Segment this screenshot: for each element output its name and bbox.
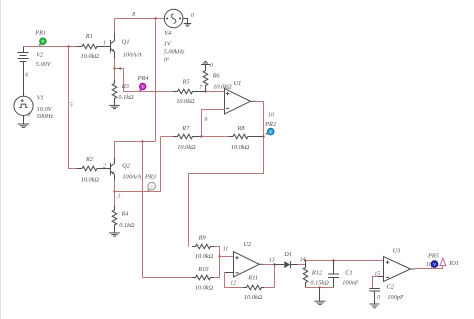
svg-text:5.00kHz: 5.00kHz <box>164 48 185 55</box>
probe PR4 <box>137 75 149 91</box>
svg-text:0: 0 <box>191 13 194 19</box>
capacitor C1 <box>328 261 359 288</box>
transistor Q1 <box>111 38 142 58</box>
battery V2 <box>18 47 52 97</box>
svg-text:R9: R9 <box>198 235 207 242</box>
svg-text:0.1kΩ: 0.1kΩ <box>119 222 135 229</box>
svg-text:V4: V4 <box>164 30 171 37</box>
svg-text:7: 7 <box>199 85 203 91</box>
resistor R4 <box>112 192 135 233</box>
svg-text:10.0kΩ: 10.0kΩ <box>213 84 232 91</box>
svg-text:2: 2 <box>103 163 106 169</box>
svg-text:0: 0 <box>377 295 380 301</box>
wire Q1 collector <box>114 33 116 41</box>
junction Q2 emitter <box>113 190 115 192</box>
svg-text:R2: R2 <box>85 156 94 163</box>
svg-text:R12: R12 <box>311 270 323 277</box>
junction C1 top <box>332 259 334 261</box>
op-amp U1 <box>225 80 251 114</box>
ground V1 <box>18 116 30 128</box>
wire rail node8 <box>115 18 165 20</box>
resistor R2 <box>77 156 111 184</box>
probe PR1 <box>34 30 46 46</box>
svg-text:10.0kΩ: 10.0kΩ <box>231 144 250 151</box>
svg-text:R10: R10 <box>197 266 209 273</box>
wire to U1 plus <box>206 91 225 93</box>
wire net5 vertical <box>69 47 77 169</box>
svg-text:10.0kΩ: 10.0kΩ <box>81 53 100 60</box>
arrow mark node4 <box>118 67 121 70</box>
wire emitter to R5 row <box>115 69 174 92</box>
ground R12 <box>314 288 325 305</box>
wire Q2 emitter <box>114 174 116 180</box>
svg-text:100pF: 100pF <box>387 294 404 301</box>
ground V4 <box>183 19 191 27</box>
wire D1 to node14 <box>298 261 306 265</box>
junction R12 ground <box>318 286 320 288</box>
svg-text:U2: U2 <box>244 241 253 248</box>
wire U1 output <box>251 100 256 102</box>
svg-text:500Hz: 500Hz <box>37 113 54 120</box>
svg-text:5: 5 <box>70 103 73 109</box>
svg-text:R4: R4 <box>120 210 128 217</box>
svg-text:100A/A: 100A/A <box>122 173 141 180</box>
svg-text:13: 13 <box>269 257 275 263</box>
svg-text:PR4: PR4 <box>137 75 149 82</box>
wire U2 inverting input <box>225 272 234 274</box>
source V4 <box>164 9 185 63</box>
svg-text:V1: V1 <box>37 94 44 101</box>
junction node8 drop <box>141 140 143 142</box>
svg-text:3: 3 <box>117 193 121 199</box>
svg-text:IO1: IO1 <box>448 260 459 267</box>
junction net5 <box>67 45 69 47</box>
svg-text:6: 6 <box>25 73 28 79</box>
diode D1 <box>275 251 298 268</box>
svg-text:C2: C2 <box>387 284 395 291</box>
svg-text:0.15kΩ: 0.15kΩ <box>310 279 329 286</box>
svg-text:U3: U3 <box>393 247 401 254</box>
svg-text:R3: R3 <box>121 83 129 90</box>
resistor R12 <box>303 261 329 288</box>
resistor R6 <box>203 71 232 92</box>
border edge <box>0 0 2 319</box>
svg-text:1: 1 <box>103 41 106 47</box>
wire U3 inverting input <box>378 276 384 278</box>
svg-text:R8: R8 <box>237 125 246 132</box>
junction node9 <box>200 135 202 137</box>
svg-text:10.0kΩ: 10.0kΩ <box>195 285 214 292</box>
junction Q1 emitter <box>113 67 115 69</box>
ground C2 <box>370 304 380 308</box>
junction node14 <box>304 259 306 261</box>
svg-text:C1: C1 <box>345 270 352 277</box>
source V1 <box>14 94 54 120</box>
wire Q1 emitter <box>114 52 116 58</box>
wire net5 top <box>24 46 77 48</box>
svg-text:R6: R6 <box>212 72 221 79</box>
svg-text:Q2: Q2 <box>122 163 131 170</box>
ground R3 <box>109 105 120 108</box>
svg-text:R11: R11 <box>247 275 258 282</box>
svg-text:10.0kΩ: 10.0kΩ <box>177 144 196 151</box>
wire U2 output <box>259 263 263 265</box>
svg-text:Q1: Q1 <box>122 38 130 45</box>
junction rail V4 <box>154 17 156 19</box>
svg-text:PR1: PR1 <box>34 30 46 37</box>
svg-text:8: 8 <box>132 12 135 18</box>
junction node13 <box>273 263 275 265</box>
wire emitter to R7 <box>115 137 161 192</box>
svg-text:11: 11 <box>223 246 229 252</box>
svg-text:100nF: 100nF <box>342 279 359 286</box>
svg-text:10.0V: 10.0V <box>37 106 53 113</box>
svg-text:R7: R7 <box>181 125 190 132</box>
svg-text:10.0kΩ: 10.0kΩ <box>176 98 195 105</box>
ground R6 <box>201 62 210 71</box>
wire V4 drop <box>155 19 157 142</box>
svg-text:12: 12 <box>230 281 236 287</box>
svg-text:R5: R5 <box>182 78 190 85</box>
resistor R8 <box>202 125 264 151</box>
wire collector row <box>115 141 156 143</box>
op-amp U2 <box>234 241 260 277</box>
svg-text:R1: R1 <box>85 33 93 40</box>
svg-text:0: 0 <box>210 63 213 69</box>
svg-text:10.0kΩ: 10.0kΩ <box>244 294 263 301</box>
svg-text:V2: V2 <box>36 51 44 58</box>
probe PR5 <box>427 253 439 268</box>
wire U3 output <box>411 268 415 270</box>
resistor R3 <box>112 69 134 105</box>
svg-text:D1: D1 <box>283 251 292 258</box>
resistor R1 <box>77 33 111 60</box>
ground R4 <box>109 233 120 236</box>
resistor R7 <box>161 125 202 151</box>
probe PR2 <box>264 121 277 135</box>
transistor Q2 <box>111 163 142 181</box>
resistor R5 <box>173 78 206 105</box>
junction R5 R6 <box>204 90 206 92</box>
svg-text:PR5: PR5 <box>427 253 439 260</box>
probe PR3 <box>144 174 156 191</box>
svg-text:0°: 0° <box>164 56 170 63</box>
resistor R11 <box>243 265 275 302</box>
junction node10 <box>262 135 264 137</box>
connector IO1 <box>440 258 459 267</box>
wire R12 C1 bottom <box>306 287 334 289</box>
junction node11 <box>218 255 220 257</box>
resistor R10 <box>143 257 220 292</box>
resistor R9 <box>192 235 220 261</box>
svg-text:10.0kΩ: 10.0kΩ <box>81 176 100 183</box>
svg-text:10: 10 <box>268 112 274 118</box>
svg-text:U1: U1 <box>234 80 242 87</box>
wire rail to U3 <box>306 260 384 262</box>
wire Q2 collector <box>114 158 116 164</box>
svg-text:1V: 1V <box>164 40 172 47</box>
wire to U2 plus <box>220 256 234 258</box>
op-amp U3 <box>384 247 411 281</box>
svg-text:0.1kΩ: 0.1kΩ <box>118 94 134 101</box>
svg-text:9: 9 <box>204 117 207 123</box>
svg-text:PR2: PR2 <box>264 121 277 128</box>
svg-text:10.0kΩ: 10.0kΩ <box>195 253 214 260</box>
svg-text:0: 0 <box>27 113 30 119</box>
wire U1 inverting input <box>202 110 225 137</box>
capacitor C2 <box>369 284 404 304</box>
svg-text:PR3: PR3 <box>144 174 156 181</box>
svg-text:5.00V: 5.00V <box>36 61 52 68</box>
wire long drop to R10 <box>142 142 144 278</box>
svg-text:100A/A: 100A/A <box>123 52 142 59</box>
